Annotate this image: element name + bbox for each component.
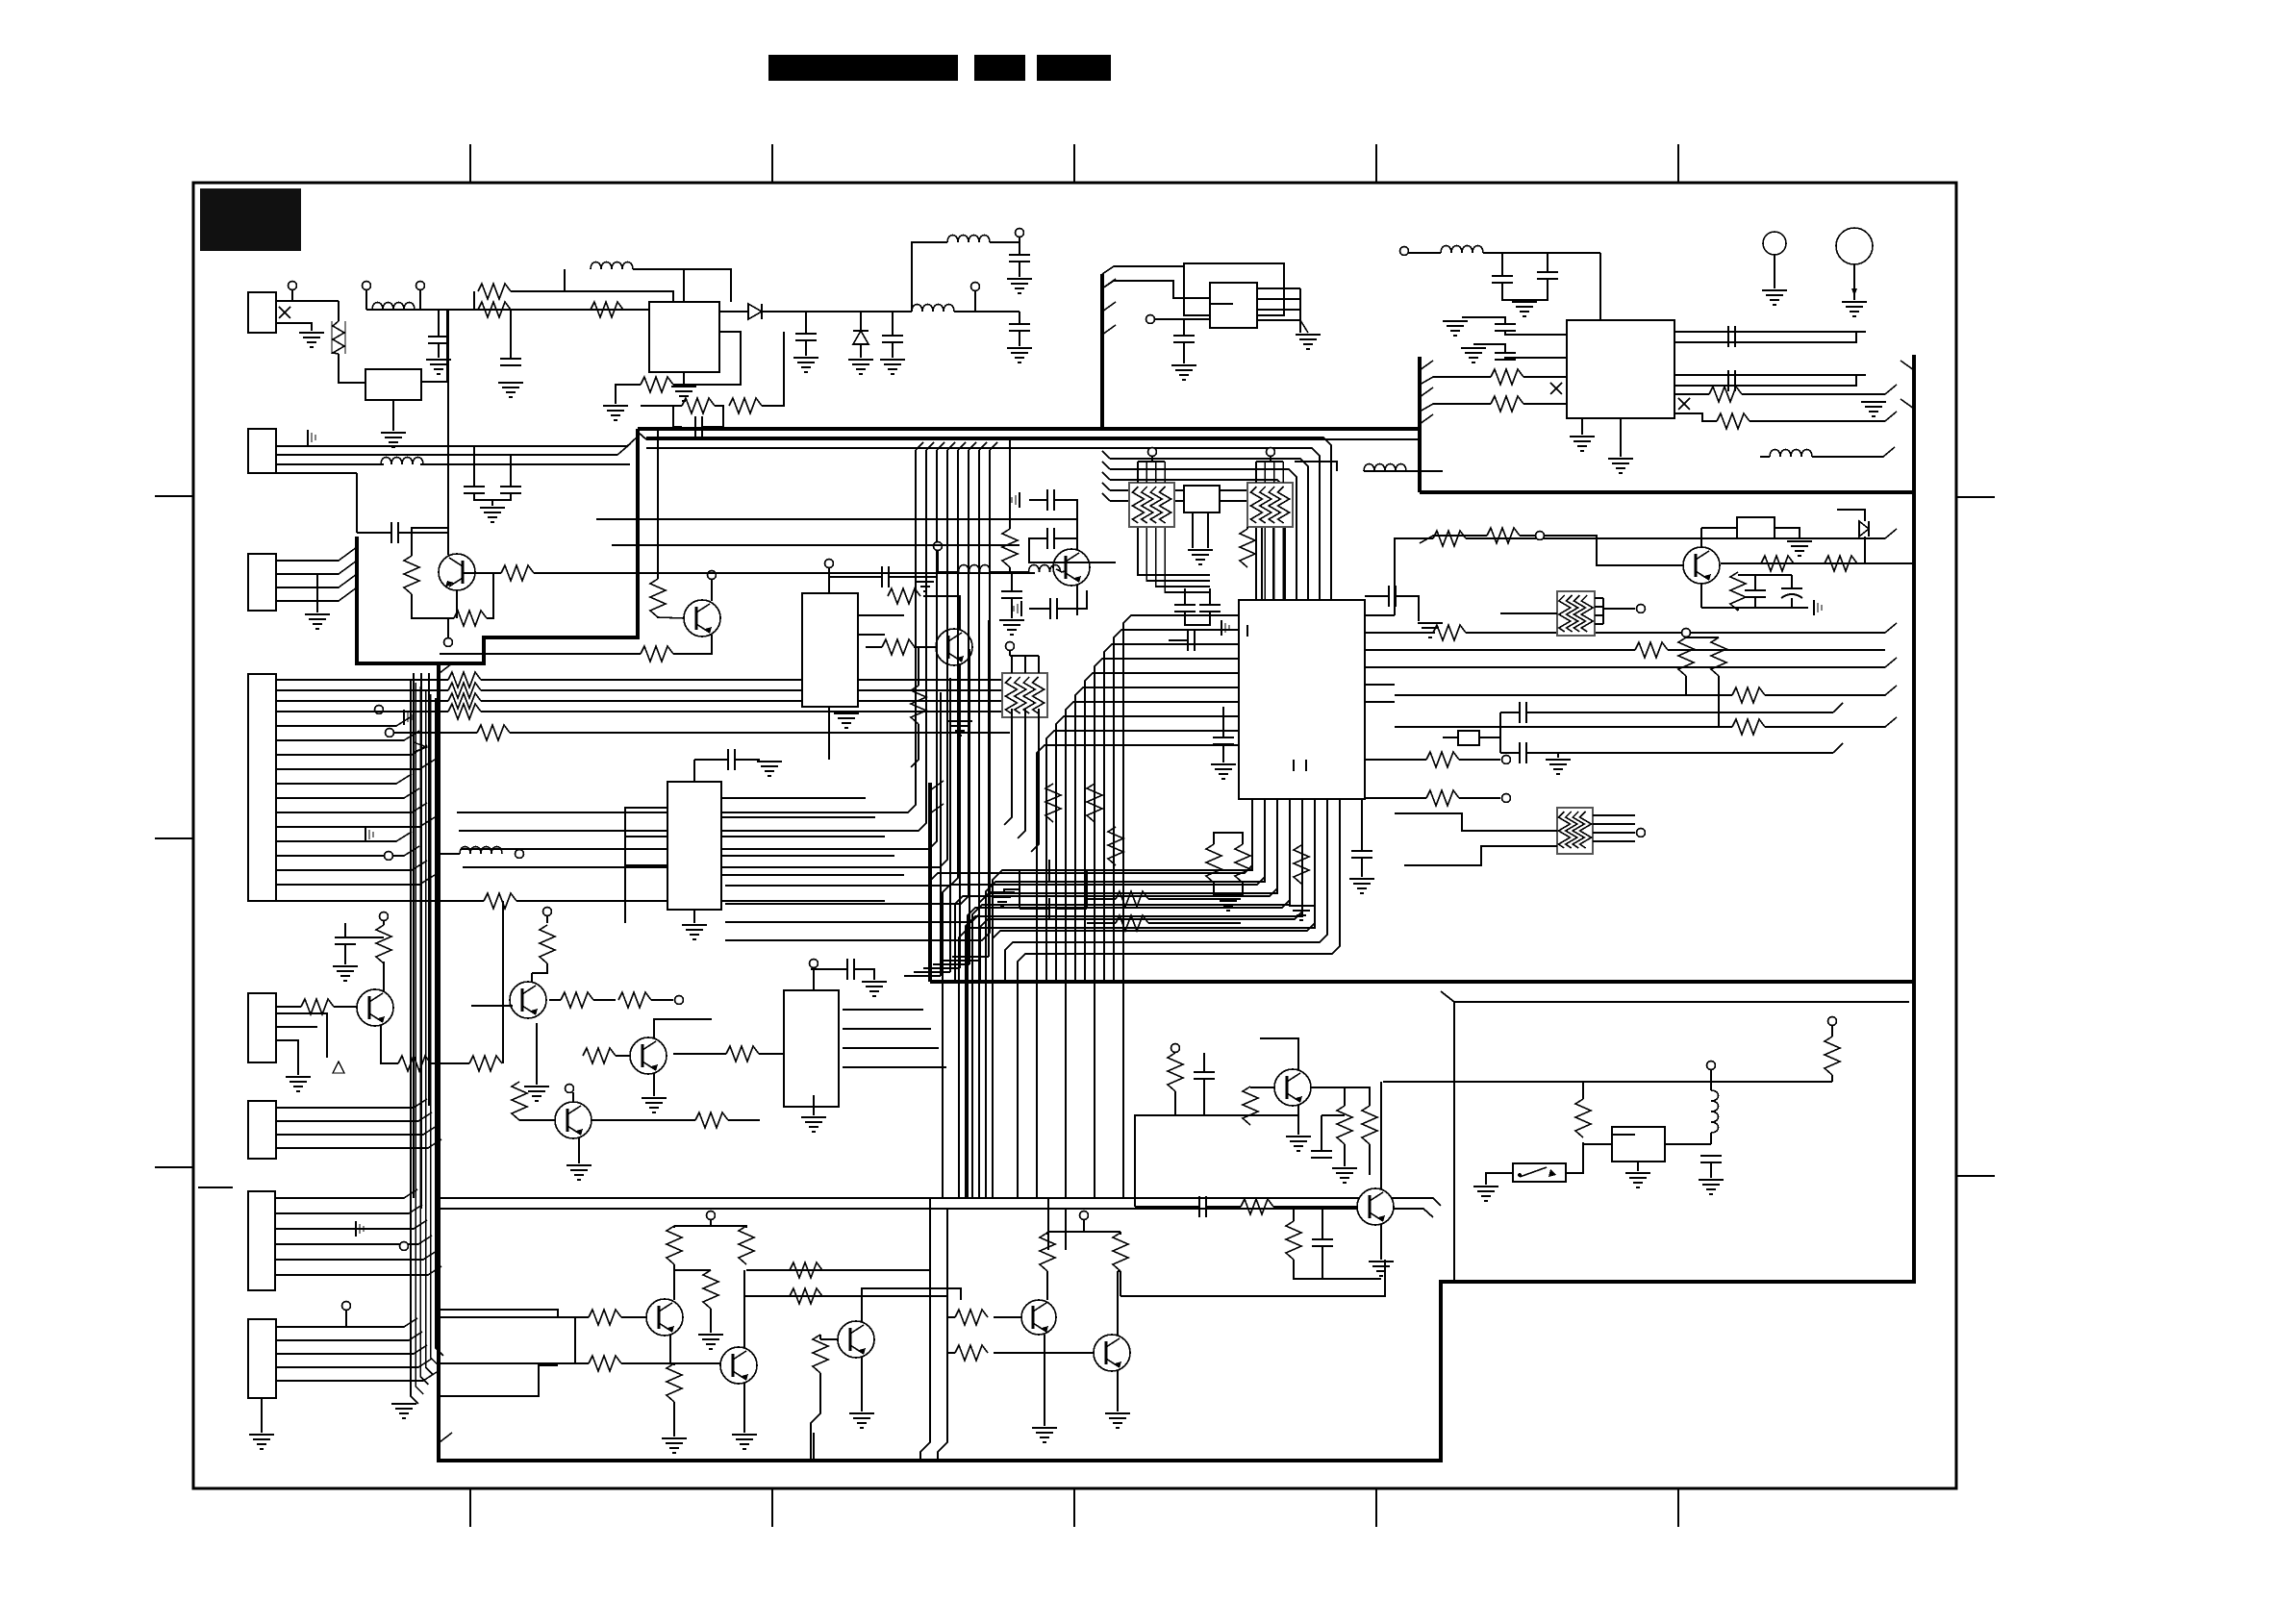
wire c37 l xyxy=(1135,1206,1198,1208)
wire N1 pin2 xyxy=(1155,462,1157,483)
connector J4 box xyxy=(248,674,276,901)
wire y324 to L3 xyxy=(866,311,912,312)
ground G23 xyxy=(1570,436,1595,437)
wire C3 gnd xyxy=(805,340,807,356)
wire link xyxy=(574,1317,576,1363)
wire U2 right up xyxy=(421,310,447,382)
terminal T5 xyxy=(1016,229,1024,237)
wire Q6 base xyxy=(471,1005,513,1007)
wire V1 stub a xyxy=(1102,266,1184,274)
resistor R2 xyxy=(478,302,511,317)
wire out1 xyxy=(746,1269,930,1271)
wire C43 t xyxy=(1209,588,1211,605)
wire U6 right pin5 xyxy=(1365,684,1395,686)
terminal T8b xyxy=(386,729,394,737)
wire center down h5 xyxy=(904,975,941,977)
wire J7 p5 xyxy=(275,1266,441,1275)
terminal T1 xyxy=(289,282,297,290)
wire Q6 g xyxy=(536,1067,538,1085)
wire net right2 xyxy=(1395,632,1433,634)
wire J3 pin1 xyxy=(276,547,357,561)
wire N2 com xyxy=(1256,461,1283,462)
capacitor C2 xyxy=(694,416,696,437)
border tick bottom xyxy=(1375,1488,1377,1527)
resistor R31 xyxy=(1294,845,1309,884)
stub midcol6 xyxy=(969,442,976,450)
resistor R46 xyxy=(667,1226,682,1264)
capacitor C14 xyxy=(1388,586,1390,607)
ground G10 xyxy=(1007,278,1032,280)
IC U8 box xyxy=(784,990,839,1107)
transistor Q2 xyxy=(684,600,720,637)
wire RQ6 b xyxy=(532,963,547,973)
capacitor C27 xyxy=(1001,590,1022,592)
wire join b2 xyxy=(1322,1246,1323,1279)
wire U6 left pin9 xyxy=(1046,731,1239,982)
wire r57 l xyxy=(947,1352,955,1354)
wire R14 top xyxy=(1009,439,1011,529)
terminal TN5 xyxy=(1006,642,1015,651)
ground G40 xyxy=(862,981,887,983)
wire N2 leg3 xyxy=(1273,527,1275,600)
stub x457 b xyxy=(440,1433,452,1442)
gnd small mark5 xyxy=(355,1221,357,1237)
stub x457 a xyxy=(440,663,452,673)
wire R4 left xyxy=(616,385,641,404)
wire Q1 col xyxy=(447,528,449,555)
block border inner line xyxy=(646,438,1420,440)
gnd small mark xyxy=(403,710,405,725)
terminal T19 xyxy=(1502,794,1511,803)
wire U4 r2b xyxy=(1674,375,1856,386)
wire R12 top xyxy=(657,429,659,579)
ground U8 stem xyxy=(813,1095,815,1115)
resistor R28 xyxy=(1717,413,1750,429)
stub V4 1 xyxy=(1901,399,1914,409)
ground G54 xyxy=(1473,1186,1498,1187)
wire pair v3 xyxy=(1047,1198,1049,1250)
wire q10 out xyxy=(1311,1087,1345,1106)
connector J5 box xyxy=(248,993,276,1062)
resistor R38 xyxy=(1045,784,1061,822)
wire Q1 loop bot xyxy=(412,594,454,618)
wire q14 em xyxy=(743,1383,745,1433)
wire c37 r xyxy=(1206,1206,1241,1208)
connector J7 box xyxy=(248,1191,275,1290)
ground U4 stem2 xyxy=(1620,418,1622,457)
wire q16 em xyxy=(1044,1335,1045,1426)
wire R12 base xyxy=(657,617,659,618)
wire q7 down xyxy=(326,1029,328,1058)
resistor R56 xyxy=(955,1310,988,1325)
capacitor C7 stem xyxy=(473,446,475,486)
wire C11 l xyxy=(694,759,727,761)
resistor R19 xyxy=(1732,687,1765,703)
wire C30 xyxy=(1222,707,1224,737)
ground J8 stem xyxy=(261,1398,263,1433)
wire r54 b xyxy=(1046,1271,1048,1300)
wire U5 top xyxy=(828,567,830,593)
wire N2 pin0 xyxy=(1255,462,1257,483)
ground G37 xyxy=(524,1086,549,1087)
wire col up xyxy=(502,901,504,1063)
schematic border frame xyxy=(193,183,1956,1488)
wire TN1 xyxy=(1151,456,1153,462)
border tick top xyxy=(771,144,773,183)
wire C16 bend2 xyxy=(1833,743,1843,753)
resistor R30 xyxy=(1235,844,1250,883)
wire C31 loop xyxy=(1020,869,1048,871)
terminal T21 xyxy=(543,908,552,916)
wire C44 l xyxy=(1169,639,1187,641)
resistor R22 xyxy=(1761,556,1794,571)
wire C34 l xyxy=(811,968,846,970)
resistor RQ6 xyxy=(540,925,555,963)
wire Q4 out xyxy=(1721,562,1912,564)
ground G33 xyxy=(1211,763,1236,765)
terminal T13 xyxy=(1637,605,1646,613)
wire U8 r0 xyxy=(843,1009,923,1011)
ground G17 xyxy=(1418,622,1443,624)
IC U3 box xyxy=(1210,283,1257,328)
terminal T20 xyxy=(380,912,389,921)
ground G13 xyxy=(913,576,938,578)
resistor R66 xyxy=(1825,1037,1840,1075)
stub V1 1 xyxy=(1102,302,1116,312)
ground G57 xyxy=(1171,364,1196,366)
wire r60 b xyxy=(1174,1091,1176,1115)
stub midcol4 xyxy=(947,442,955,450)
wire q10 em xyxy=(1297,1105,1299,1135)
stub V2 1 xyxy=(1420,387,1433,397)
wire U7 top xyxy=(693,760,695,782)
ground G21 xyxy=(1443,320,1468,322)
border tick bottom xyxy=(1073,1488,1075,1527)
resistor R15 xyxy=(888,588,920,604)
wire U3 right pin1 xyxy=(1257,287,1300,289)
wire N1 leg3 xyxy=(1156,527,1210,587)
capacitor C7 xyxy=(464,486,485,487)
stub midcol7 xyxy=(979,442,987,450)
wire U7 right3 xyxy=(721,855,894,857)
border tick top xyxy=(469,144,471,183)
IC U7 box xyxy=(667,782,721,910)
box U12 xyxy=(1737,517,1775,538)
gnd small mark2 xyxy=(365,827,366,842)
wire r63 r xyxy=(1273,1206,1357,1208)
wire U5 right2 xyxy=(858,634,885,636)
resistor R16 xyxy=(1433,531,1466,546)
wire J4 pin6 xyxy=(276,788,419,798)
border tick bottom xyxy=(469,1488,471,1527)
wire sw r xyxy=(1566,1142,1583,1173)
wire q10 base xyxy=(1250,1087,1274,1088)
IC U2 box xyxy=(365,369,421,400)
resistor RN52 xyxy=(448,693,481,709)
border tick top xyxy=(1677,144,1679,183)
wire D3 up xyxy=(1837,510,1865,521)
gnd small mark6 xyxy=(1020,601,1022,616)
bus horizontal H3 xyxy=(930,980,1914,984)
resistor R37 xyxy=(1087,784,1102,822)
ground G22 xyxy=(1461,347,1486,349)
wire C14 xyxy=(1365,595,1388,597)
terminal T23 xyxy=(566,1085,574,1093)
gnd mark J2 xyxy=(307,430,309,445)
wire N2 right xyxy=(1295,462,1337,471)
capacitor C16 xyxy=(1519,742,1521,763)
capacitor C39 xyxy=(1700,1155,1722,1157)
terminal T16 xyxy=(1400,247,1409,256)
capacitor C20 xyxy=(1492,275,1513,277)
wire net x xyxy=(1345,1087,1370,1106)
wire q4 net xyxy=(1738,574,1792,576)
terminal TN1 xyxy=(1148,448,1157,457)
terminal T28 xyxy=(1080,1212,1089,1220)
capacitor C12 xyxy=(1046,489,1048,511)
wire rowN5 1 xyxy=(276,689,448,691)
wire C2 loop xyxy=(673,406,682,427)
capacitor C44 xyxy=(1187,630,1189,651)
wire R2930 b xyxy=(1214,883,1243,894)
ground G58 xyxy=(1296,334,1321,336)
black label box xyxy=(200,188,301,251)
wire R7 right xyxy=(516,900,885,902)
border tick right xyxy=(1956,1175,1995,1177)
wire N3 bar xyxy=(1602,598,1604,624)
wire U8 r1 xyxy=(843,1028,931,1030)
terminal TN2 xyxy=(1267,448,1275,457)
wire U7 left0 xyxy=(625,808,667,923)
wire branch xyxy=(1293,1207,1295,1221)
diag pin2 xyxy=(617,443,631,455)
wire N2 leg4 xyxy=(1282,527,1284,600)
wire N5 down b xyxy=(1018,709,1025,838)
arrow mark xyxy=(414,742,427,752)
wire c19 b xyxy=(1791,598,1793,608)
wire R7 ext xyxy=(276,900,484,902)
resistor R23 xyxy=(1825,556,1857,571)
wire Q18 em xyxy=(1076,585,1078,615)
zener D2 xyxy=(853,331,869,344)
wire U6 bot route4 xyxy=(966,865,1302,1198)
wire U1 top xyxy=(683,269,685,302)
wire J8 p0 xyxy=(276,1318,417,1327)
inductor L11 xyxy=(959,565,991,573)
wire Q6 col xyxy=(531,973,533,982)
resistor R25 xyxy=(1491,369,1523,385)
wire long bottom xyxy=(813,1433,815,1461)
wire J2 pin1 xyxy=(276,445,627,447)
wire U8 r2 xyxy=(843,1047,939,1049)
wire TN2 xyxy=(1270,456,1271,462)
wire T21 stem xyxy=(546,915,548,923)
capacitor C4 xyxy=(882,335,903,337)
wire T32 to U3 xyxy=(1154,318,1210,320)
wire r66 b xyxy=(1831,1075,1833,1082)
wire q15 col xyxy=(862,1288,961,1322)
wire C40 up xyxy=(1183,319,1185,336)
wire q14 col xyxy=(743,1270,745,1348)
resistor R59 xyxy=(1243,1087,1258,1125)
wire U12 l xyxy=(1701,527,1737,529)
wire L3 right xyxy=(954,311,1020,312)
ground G27 xyxy=(1842,301,1867,303)
wire C34 r xyxy=(854,969,874,980)
wire C3 xyxy=(805,312,807,334)
wire C5 gnd xyxy=(1019,331,1020,346)
diag R26 xyxy=(1420,404,1491,412)
wire C22 top xyxy=(1462,317,1505,323)
wire down caps xyxy=(1321,1115,1322,1151)
wire feed U6 top 5 xyxy=(1110,480,1285,600)
wire q15 em xyxy=(861,1357,863,1412)
wire L11 l xyxy=(938,571,959,573)
transistor Q7 xyxy=(357,989,393,1026)
ground G12 xyxy=(305,613,330,615)
resistor R54 xyxy=(1040,1233,1055,1271)
ground C1 stem xyxy=(438,343,440,358)
wire r65 t xyxy=(1582,1082,1584,1099)
inductor L3 xyxy=(912,305,954,312)
wire midcol2 xyxy=(459,450,926,831)
wire C23 top xyxy=(1473,344,1505,352)
wire Q18 base xyxy=(1056,569,1061,571)
wire riser x466 xyxy=(447,310,449,533)
transistor Q1 xyxy=(439,554,475,590)
inductor L2 xyxy=(591,262,633,270)
resistor R61 xyxy=(1337,1106,1352,1144)
wire J4 pin10 xyxy=(276,846,419,856)
terminal T25 xyxy=(400,1242,409,1251)
IC U7 box mask xyxy=(667,782,721,910)
wire L10 xyxy=(1760,456,1770,458)
wire net right5 xyxy=(1395,694,1732,696)
capacitor C36 xyxy=(1311,1150,1332,1152)
wire N2 pin2 xyxy=(1273,462,1275,483)
wire J8 p3 xyxy=(276,1359,432,1367)
wire Q4 em xyxy=(1700,585,1702,608)
stub midcol8 xyxy=(990,442,997,450)
diag right4 xyxy=(1885,658,1897,667)
inductor L6 xyxy=(460,847,502,855)
wire N4 left xyxy=(1395,813,1557,831)
wire X1 riser xyxy=(1499,712,1501,753)
wire R48 b xyxy=(710,1309,712,1333)
terminal T3 xyxy=(416,282,425,290)
wire J5 p1b xyxy=(334,1006,357,1008)
wire T1 stem xyxy=(291,289,293,301)
trunk band wire5 xyxy=(431,694,439,1365)
wire q16 base xyxy=(994,1316,1021,1318)
inductor L7 xyxy=(1364,464,1406,472)
wire Q2 base xyxy=(658,617,684,618)
hatch network N2 xyxy=(1247,483,1293,527)
ground G5 xyxy=(671,386,696,387)
gnd small mark3 xyxy=(1019,492,1020,508)
wire L4 right xyxy=(990,241,1020,243)
wire q17 base xyxy=(994,1352,1094,1354)
block border inner top xyxy=(639,433,646,439)
wire net5b xyxy=(1765,686,1897,695)
ground G42 xyxy=(249,1434,274,1436)
wire J3 pin2 xyxy=(276,561,357,574)
ground G18 stem xyxy=(1557,753,1559,758)
wire feed U6 top 6 xyxy=(1110,490,1273,600)
u9 tab xyxy=(1612,1134,1635,1136)
transistor Q4 xyxy=(1683,547,1720,584)
transistor Q3 xyxy=(936,629,972,665)
wire pair v2 xyxy=(938,1209,947,1461)
diag pin1 xyxy=(627,436,639,446)
wire C31 r xyxy=(1056,869,1087,871)
wire C2 loop2 xyxy=(702,406,723,427)
wire J6 p2 xyxy=(276,1126,437,1135)
transistor Q15 xyxy=(838,1321,874,1358)
wire midcol3 xyxy=(461,450,937,849)
wire T5 down xyxy=(1019,237,1020,242)
resistor R4 xyxy=(641,377,673,392)
capacitor C15 xyxy=(1519,702,1521,723)
wire feed left b xyxy=(440,1362,575,1364)
connector J2 box xyxy=(248,429,276,473)
wire J7 p3 xyxy=(275,1236,432,1244)
wire J3 pin4 xyxy=(276,587,357,601)
wire C20 xyxy=(1501,253,1503,276)
resistor R32 xyxy=(1426,752,1459,767)
block border bottom region top b xyxy=(440,1209,1433,1217)
wire U7 left1 xyxy=(625,837,667,923)
wire row y322 xyxy=(366,309,649,311)
ground U7 stem xyxy=(693,910,695,923)
terminal T29 xyxy=(1171,1044,1180,1053)
wire r51 b xyxy=(673,1402,675,1437)
resistor R49 xyxy=(589,1310,621,1325)
terminal T17 xyxy=(934,542,943,551)
wire Q4 base xyxy=(1544,536,1683,565)
capacitor C25 xyxy=(1727,370,1729,391)
U6 inner mark xyxy=(1293,760,1295,771)
wire R2930 top xyxy=(1214,833,1243,844)
wire C9 right xyxy=(398,532,448,534)
ground G31 xyxy=(1289,905,1314,907)
wire Q6 em xyxy=(536,1023,538,1067)
wire q15 base xyxy=(820,1338,838,1340)
resistor R44 xyxy=(583,1048,616,1063)
wire rowN5 2 xyxy=(276,700,448,702)
wire C14 r xyxy=(1396,596,1419,615)
ground G15 xyxy=(757,761,782,762)
ground G7 xyxy=(848,359,873,361)
ground G9 xyxy=(1007,347,1032,349)
wire net6b xyxy=(1765,717,1897,727)
wire Q3 em xyxy=(959,663,961,702)
wire Q7 em xyxy=(381,1025,398,1063)
wire N3 r0 xyxy=(1595,597,1603,599)
wire R35 l xyxy=(1087,922,1116,924)
wire q17 em xyxy=(1117,1370,1119,1412)
resistor R52 xyxy=(813,1335,828,1373)
wire out2 xyxy=(744,1295,947,1297)
wire R21 T15 xyxy=(1520,535,1536,537)
wire Q9 base xyxy=(616,1055,630,1057)
inductor L8 xyxy=(1441,246,1483,254)
wire C15 l xyxy=(1500,712,1519,713)
wire U6 bot route0 xyxy=(993,865,1252,1198)
wire r55 b xyxy=(1118,1270,1120,1272)
wire N4 r1 xyxy=(1593,823,1635,825)
wire midcol8 xyxy=(725,450,990,940)
